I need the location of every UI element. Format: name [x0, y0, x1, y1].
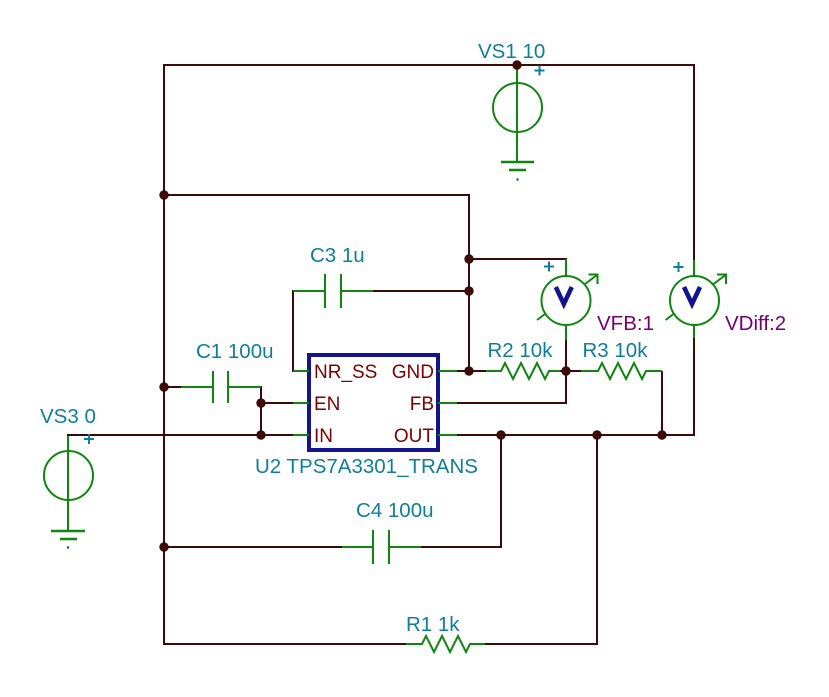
- voltmeter VFB leads: [565, 259, 567, 340]
- wire C3 right: [373, 290, 469, 292]
- svg-text:GND: GND: [392, 362, 434, 383]
- wire C4 row left: [164, 546, 342, 548]
- wire R3 right riser: [661, 371, 663, 436]
- node R2 R3 FB meter: [561, 366, 570, 375]
- node EN riser: [256, 398, 265, 407]
- node left rail y196: [159, 190, 168, 199]
- svg-text:C1 100u: C1 100u: [196, 340, 274, 363]
- svg-text:EN: EN: [314, 394, 340, 415]
- ground (VS1): [501, 162, 534, 180]
- node OUT R1: [592, 430, 601, 439]
- capacitor C4: [342, 530, 421, 564]
- voltmeter VFB arrow: [537, 274, 599, 320]
- wire C1 left stub: [164, 386, 182, 388]
- node x469 C3 branch: [464, 286, 473, 295]
- svg-text:IN: IN: [314, 426, 333, 447]
- svg-text:U2 TPS7A3301_TRANS: U2 TPS7A3301_TRANS: [255, 455, 478, 478]
- plus VS1: [535, 66, 545, 76]
- wire top rail: [163, 64, 695, 66]
- wire VFB plus branch: [469, 258, 566, 260]
- wire FB row: [456, 402, 566, 404]
- pin stub NR_SS: [293, 370, 309, 372]
- node IN riser: [256, 430, 265, 439]
- wire R1 row left: [163, 643, 407, 645]
- svg-text:NR_SS: NR_SS: [314, 362, 377, 383]
- plus VDiff: [674, 262, 684, 272]
- pin stub IN: [293, 434, 309, 436]
- capacitor C1: [181, 371, 261, 403]
- resistor R2: [486, 363, 560, 379]
- wire C1 right riser: [260, 386, 262, 436]
- wire OUT row: [456, 434, 695, 436]
- wire C4 riser: [500, 434, 502, 548]
- node C1 left: [159, 382, 168, 391]
- svg-text:R1 1k: R1 1k: [406, 613, 460, 636]
- svg-text:OUT: OUT: [394, 426, 435, 447]
- node x469 meter branch: [464, 254, 473, 263]
- IC U2 body: [309, 355, 438, 450]
- wire VFB meter bottom: [565, 340, 567, 372]
- wire left rail: [163, 64, 165, 645]
- wire GND pin to junction: [456, 370, 486, 372]
- wire R1 row right: [485, 643, 598, 645]
- wire second rail y196: [163, 194, 469, 196]
- voltmeter VDiff V glyph: [684, 287, 700, 304]
- wire R1 riser: [596, 434, 598, 645]
- wire R2 right to node: [559, 370, 567, 372]
- voltmeter VDiff leads: [693, 260, 695, 338]
- plus VFB: [544, 262, 554, 272]
- plus VS3: [84, 434, 94, 444]
- wire C4 row right: [421, 546, 502, 548]
- voltmeter VFB body: [542, 276, 591, 325]
- svg-text:VDiff:2: VDiff:2: [725, 312, 786, 335]
- node OUT R3: [657, 430, 666, 439]
- wire VDiff bottom riser: [693, 338, 695, 436]
- svg-text:VFB:1: VFB:1: [597, 312, 654, 335]
- wire FB riser to node: [565, 370, 567, 404]
- voltage source VS1: [493, 66, 542, 162]
- svg-text:R3 10k: R3 10k: [583, 339, 649, 362]
- voltmeter VFB V glyph: [556, 287, 572, 304]
- pin stub GND: [438, 370, 457, 372]
- pin stub OUT: [438, 434, 457, 436]
- node VS1 top: [512, 60, 521, 69]
- resistor R3: [581, 363, 662, 379]
- svg-text:VS1 10: VS1 10: [478, 40, 545, 63]
- wire EN row: [261, 402, 294, 404]
- voltmeter VDiff body: [670, 276, 719, 325]
- svg-text:R2 10k: R2 10k: [488, 339, 554, 362]
- resistor R1: [406, 636, 485, 652]
- wire C3 left riser: [292, 290, 294, 372]
- wire right column top (VDiff+): [693, 64, 695, 260]
- svg-text:FB: FB: [410, 394, 434, 415]
- capacitor C3: [293, 274, 373, 308]
- svg-text:C3 1u: C3 1u: [310, 244, 365, 267]
- svg-text:VS3 0: VS3 0: [40, 405, 96, 428]
- node OUT C4: [496, 430, 505, 439]
- node GND row: [464, 366, 473, 375]
- wire node to R3 left: [566, 370, 581, 372]
- wire x469 column: [468, 194, 470, 371]
- pin stub FB: [438, 402, 457, 404]
- ground (VS3): [51, 531, 85, 548]
- voltage source VS3: [44, 436, 93, 531]
- wire VS3 to IN row: [67, 434, 294, 436]
- svg-text:C4 100u: C4 100u: [356, 499, 434, 522]
- node C4 left: [159, 542, 168, 551]
- pin stub EN: [293, 402, 309, 404]
- voltmeter VDiff arrow: [666, 274, 728, 320]
